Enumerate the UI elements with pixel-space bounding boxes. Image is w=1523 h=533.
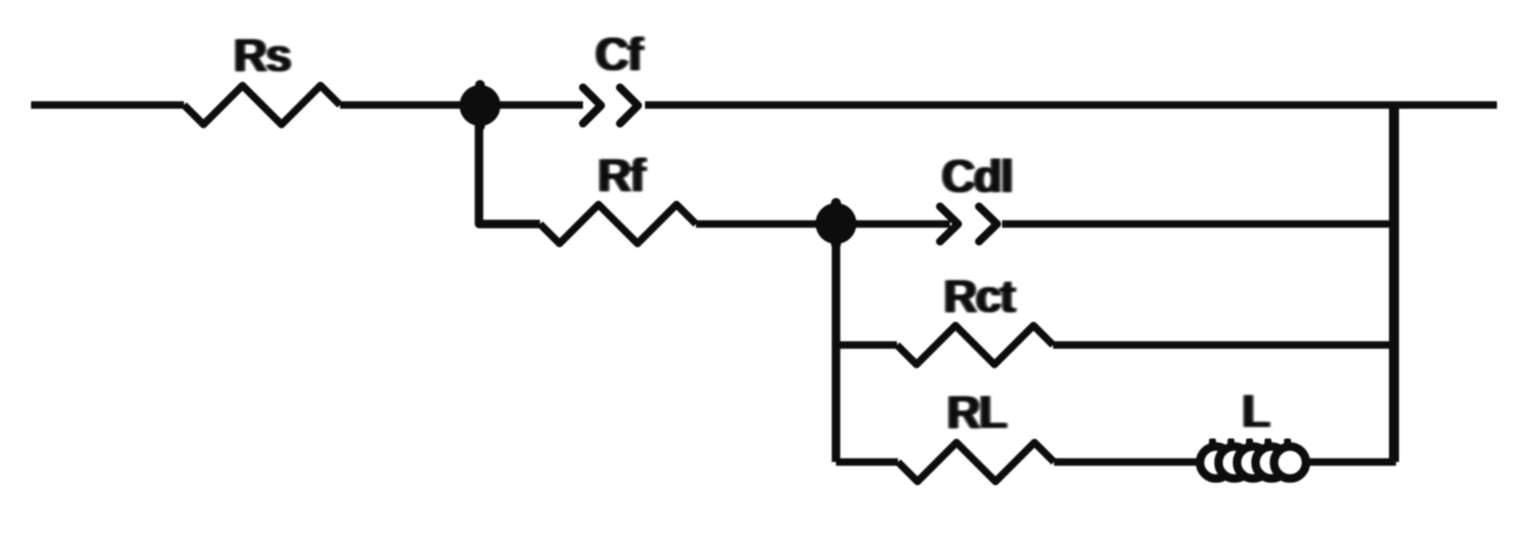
label RL [945, 386, 1008, 438]
label Cdl [940, 150, 1015, 202]
wire: top rail after Cf [645, 101, 1497, 109]
resistor Rs [184, 86, 340, 125]
label Rs [232, 29, 292, 81]
wire: RL to inductor [1054, 458, 1200, 466]
wire: Rct branch stub [836, 341, 897, 349]
resistor RL [898, 443, 1054, 482]
node B junction dot [816, 198, 857, 249]
node A junction dot [460, 80, 501, 131]
svg-text:Cf: Cf [595, 28, 643, 80]
label Rct [942, 270, 1017, 322]
label Cf [593, 28, 645, 80]
resistor Rct [897, 326, 1053, 365]
wire: inductor to right rail [1308, 458, 1396, 466]
wire: Rct to right rail [1053, 341, 1396, 349]
svg-text:Cdl: Cdl [942, 150, 1013, 202]
resistor Rf [540, 205, 696, 244]
label Rf [596, 149, 648, 201]
inductor L [1200, 439, 1306, 479]
svg-text:RL: RL [947, 386, 1006, 438]
svg-text:Rs: Rs [234, 29, 290, 81]
svg-text:Rf: Rf [598, 149, 646, 201]
wire: Rf to node B [696, 220, 950, 228]
wire: right rail vertical [1389, 102, 1399, 462]
capacitor Cf [583, 88, 638, 124]
label L [1240, 385, 1271, 437]
wire: Cdl to right rail [1002, 220, 1396, 228]
wire: Rs to node A [340, 101, 583, 109]
svg-text:Rct: Rct [944, 270, 1015, 322]
wire: node A vertical drop [479, 105, 540, 224]
capacitor Cdl [940, 207, 997, 242]
wire: RL branch corner [836, 458, 898, 466]
wire: left input lead [31, 101, 184, 109]
svg-text:L: L [1242, 385, 1269, 437]
wire: node B vertical drop [832, 224, 841, 462]
